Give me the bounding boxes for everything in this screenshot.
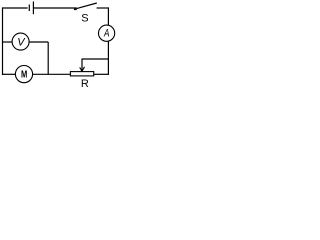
svg-text:R: R (81, 78, 89, 88)
svg-text:V: V (17, 37, 26, 49)
svg-text:S: S (81, 12, 88, 24)
svg-text:M: M (21, 68, 27, 79)
svg-text:A: A (103, 27, 110, 40)
